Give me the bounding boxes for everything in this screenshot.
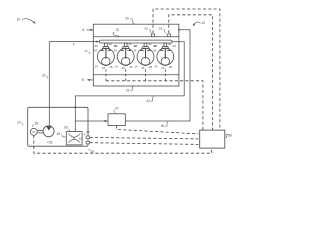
engine block 12 outline bbox=[93, 24, 179, 86]
svg-text:A: A bbox=[82, 28, 85, 32]
injector control drops (dashed) bbox=[106, 69, 165, 81]
junction node tank top bbox=[74, 106, 76, 108]
cylinder 2 bbox=[114, 42, 137, 70]
motor M 28 bbox=[30, 128, 37, 135]
tiny label 12 near block left edge bbox=[84, 49, 90, 54]
exhaust arrow E bbox=[82, 78, 93, 82]
svg-text:20: 20 bbox=[125, 16, 129, 20]
svg-text:F: F bbox=[73, 43, 75, 47]
label 58 with hook bbox=[88, 149, 94, 153]
label 47 with leader bbox=[114, 106, 119, 113]
svg-text:32: 32 bbox=[116, 28, 120, 32]
label 22 with hook bbox=[126, 86, 134, 92]
pump 26 bbox=[43, 126, 54, 137]
cylinder 1 bbox=[94, 42, 117, 70]
svg-text:30: 30 bbox=[42, 74, 46, 78]
sensor 50 bbox=[151, 34, 154, 37]
svg-text:62: 62 bbox=[79, 136, 83, 140]
control line: stub 54 to controller (dashed) bbox=[90, 137, 199, 139]
svg-text:50: 50 bbox=[144, 26, 148, 30]
valve X pattern 62 bbox=[68, 133, 80, 143]
label 26 with hook bbox=[48, 141, 53, 145]
label 46 with hook bbox=[161, 122, 169, 128]
label 10 with leader arrow bbox=[17, 18, 36, 25]
svg-text:58: 58 bbox=[91, 149, 95, 153]
fuel filter box 47 bbox=[108, 114, 125, 126]
fuel tank 24 bbox=[28, 107, 88, 146]
svg-text:44: 44 bbox=[146, 99, 150, 103]
arrowhead into rail left end bbox=[96, 41, 99, 43]
svg-text:28: 28 bbox=[35, 121, 39, 125]
feed pipe: tank to filter 47 up to engine top bbox=[75, 120, 105, 122]
label 12 with leader arrow bbox=[193, 21, 205, 26]
label 54 with hook bbox=[85, 130, 90, 135]
injector control bus (dashed) bbox=[106, 81, 203, 130]
label 24 with hook bbox=[17, 121, 23, 126]
fuel rail 20 bbox=[100, 40, 173, 43]
label 20 with leader bbox=[125, 16, 134, 24]
svg-text:10: 10 bbox=[17, 18, 21, 22]
label 30 with hook bbox=[42, 74, 48, 79]
svg-text:E: E bbox=[82, 78, 85, 82]
crank deck line bbox=[93, 74, 179, 76]
junction node on block corner pipe bbox=[178, 29, 180, 31]
cylinder 3 bbox=[133, 42, 156, 70]
intake arrow A bbox=[82, 28, 93, 32]
tank connector stub 56 bbox=[86, 141, 90, 144]
label 52 with hook bbox=[159, 26, 166, 33]
tank connector stub 54 bbox=[86, 136, 90, 139]
label 50 with hook bbox=[144, 26, 151, 33]
svg-text:47: 47 bbox=[115, 106, 119, 110]
controller 80 bbox=[200, 130, 225, 148]
svg-text:12: 12 bbox=[201, 21, 205, 25]
outer dashed control box bbox=[153, 9, 220, 130]
svg-text:12: 12 bbox=[84, 49, 88, 53]
label 48 with hook bbox=[57, 132, 67, 137]
label 80 with hook bbox=[225, 134, 232, 138]
svg-text:48: 48 bbox=[57, 132, 61, 136]
motor shaft coupling bbox=[37, 131, 43, 133]
head deck line bbox=[93, 36, 179, 38]
control line: filter 47 to controller (dashed) bbox=[117, 126, 199, 134]
svg-text:24: 24 bbox=[17, 121, 21, 125]
control line: stub 56 to controller (dashed) bbox=[90, 143, 199, 145]
svg-text:54: 54 bbox=[86, 130, 90, 134]
label 28 with hook bbox=[33, 121, 39, 127]
pump triangle bbox=[46, 126, 51, 130]
label 60 with hook bbox=[64, 126, 69, 132]
return pipe: rail outlet down and back to tank 44 bbox=[75, 42, 184, 132]
svg-text:M: M bbox=[32, 130, 35, 134]
control line: motor M to controller bottom (dashed) bbox=[34, 135, 212, 153]
svg-text:80: 80 bbox=[228, 134, 232, 138]
inner dashed control box bbox=[169, 15, 213, 130]
svg-text:26: 26 bbox=[49, 141, 53, 145]
sensor 52 bbox=[167, 34, 170, 37]
svg-text:60: 60 bbox=[64, 126, 68, 130]
valve box 60 bbox=[66, 132, 82, 145]
svg-text:46: 46 bbox=[161, 124, 165, 128]
label 44 with hook bbox=[146, 96, 154, 103]
cylinder 4 bbox=[153, 42, 176, 70]
svg-text:22: 22 bbox=[126, 88, 130, 92]
label 32 with leader bbox=[113, 28, 119, 36]
wire: pump feed pipe 30 (pump up to fuel rail) bbox=[49, 42, 97, 126]
svg-text:52: 52 bbox=[159, 26, 163, 30]
